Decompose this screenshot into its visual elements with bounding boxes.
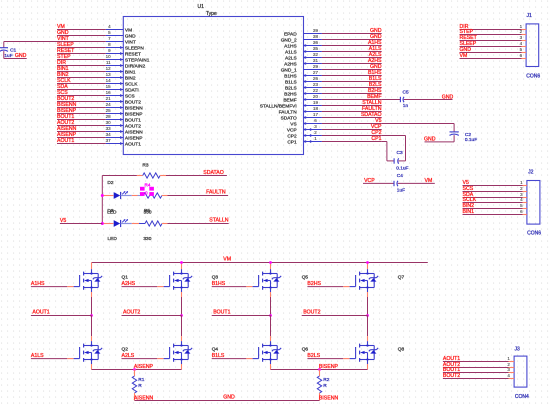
svg-text:BISENP: BISENP [125, 111, 143, 117]
svg-text:20: 20 [313, 94, 319, 99]
svg-text:B1HS: B1HS [212, 281, 226, 287]
svg-text:BOUT1: BOUT1 [213, 310, 230, 316]
svg-text:0.1uF: 0.1uF [465, 137, 477, 143]
svg-text:Q3: Q3 [212, 274, 219, 280]
svg-text:VM: VM [223, 257, 231, 263]
svg-text:BISENP: BISENP [319, 364, 339, 370]
svg-text:SDATI: SDATI [125, 87, 139, 93]
svg-text:14: 14 [106, 78, 112, 83]
svg-text:A1LS: A1LS [31, 353, 44, 359]
svg-text:B2HS: B2HS [284, 91, 297, 97]
svg-text:AOUT1: AOUT1 [32, 310, 49, 316]
svg-text:A2HS: A2HS [122, 281, 136, 287]
svg-text:A1HS: A1HS [31, 281, 45, 287]
svg-text:VCP: VCP [287, 127, 297, 133]
svg-text:10: 10 [106, 54, 112, 59]
svg-text:34: 34 [106, 132, 112, 137]
svg-text:1n: 1n [403, 103, 409, 109]
svg-text:BOUT2: BOUT2 [125, 99, 141, 105]
svg-text:V5: V5 [60, 218, 66, 224]
svg-text:Q5: Q5 [302, 274, 309, 280]
svg-text:CP2: CP2 [287, 133, 297, 139]
svg-text:B1LS: B1LS [212, 353, 225, 359]
svg-text:BOUT1: BOUT1 [125, 117, 141, 123]
svg-text:SDATO: SDATO [281, 115, 297, 121]
svg-text:31: 31 [313, 58, 319, 63]
svg-text:CON6: CON6 [526, 74, 540, 80]
svg-text:R3: R3 [142, 163, 148, 169]
svg-text:0.1uF: 0.1uF [396, 165, 408, 171]
svg-text:J3: J3 [515, 347, 521, 353]
svg-text:GND: GND [424, 137, 436, 143]
svg-text:23: 23 [313, 82, 319, 87]
svg-text:A2HS: A2HS [284, 61, 297, 67]
svg-text:R: R [138, 383, 142, 389]
svg-text:SLEEPN: SLEEPN [125, 45, 144, 51]
svg-text:21: 21 [106, 96, 112, 101]
svg-text:1uF: 1uF [397, 188, 405, 194]
svg-text:Q1: Q1 [122, 274, 129, 280]
svg-text:28: 28 [106, 114, 112, 119]
svg-text:AOUT1: AOUT1 [125, 141, 141, 147]
svg-text:BISENN: BISENN [319, 395, 339, 401]
svg-text:GND_1: GND_1 [281, 67, 297, 73]
svg-text:EPAD: EPAD [284, 31, 297, 37]
svg-text:SCS: SCS [125, 93, 135, 99]
svg-text:22: 22 [313, 88, 319, 93]
svg-text:R2: R2 [323, 377, 329, 383]
svg-text:38: 38 [313, 34, 319, 39]
svg-text:BOUT2: BOUT2 [443, 373, 460, 379]
svg-text:CON4: CON4 [515, 394, 529, 400]
svg-text:26: 26 [313, 76, 319, 81]
svg-text:32: 32 [313, 52, 319, 57]
svg-text:BIN1: BIN1 [463, 209, 475, 215]
svg-text:VCP: VCP [364, 178, 375, 184]
svg-text:Type: Type [206, 11, 217, 17]
svg-text:B2LS: B2LS [285, 85, 297, 91]
svg-text:19: 19 [313, 100, 319, 105]
svg-text:STALLN: STALLN [209, 218, 228, 224]
svg-text:C3: C3 [397, 150, 403, 156]
svg-text:R: R [323, 383, 327, 389]
svg-text:27: 27 [313, 70, 319, 75]
svg-text:35: 35 [313, 46, 319, 51]
svg-text:SDATAO: SDATAO [203, 170, 224, 176]
svg-text:AOUT1: AOUT1 [57, 138, 74, 144]
svg-text:25: 25 [106, 108, 112, 113]
svg-text:B1HS: B1HS [284, 73, 297, 79]
svg-text:AOUT2: AOUT2 [123, 310, 140, 316]
svg-text:AISENP: AISENP [134, 364, 154, 370]
svg-text:FAULTN: FAULTN [206, 190, 226, 196]
svg-text:30: 30 [106, 120, 112, 125]
svg-text:C4: C4 [397, 173, 403, 179]
svg-text:CP1: CP1 [287, 139, 297, 145]
svg-text:J2: J2 [528, 170, 534, 176]
svg-text:VM: VM [460, 53, 468, 59]
svg-text:BISENN: BISENN [125, 105, 143, 111]
svg-text:BIN2: BIN2 [125, 75, 136, 81]
svg-text:GND: GND [223, 394, 235, 400]
svg-text:AOUT2: AOUT2 [125, 123, 141, 129]
svg-text:SCLK: SCLK [125, 81, 138, 87]
svg-text:VM: VM [425, 178, 433, 184]
svg-text:39: 39 [313, 28, 319, 33]
svg-text:Q2: Q2 [122, 346, 129, 352]
svg-text:A2LS: A2LS [122, 353, 135, 359]
svg-text:330: 330 [143, 236, 151, 242]
svg-text:29: 29 [313, 64, 319, 69]
svg-text:BEMF: BEMF [283, 97, 296, 103]
svg-text:CP1: CP1 [371, 136, 381, 142]
svg-text:Q8: Q8 [398, 346, 405, 352]
svg-text:R1: R1 [138, 377, 144, 383]
svg-text:FAULTN: FAULTN [279, 109, 298, 115]
svg-text:VINT: VINT [125, 39, 136, 45]
svg-text:330: 330 [144, 209, 152, 215]
svg-text:18: 18 [313, 106, 319, 111]
svg-text:1uF: 1uF [4, 53, 12, 59]
svg-text:A2LS: A2LS [285, 55, 297, 61]
svg-text:B2LS: B2LS [307, 353, 320, 359]
svg-text:LED: LED [107, 209, 117, 215]
svg-text:DIR/AIN2: DIR/AIN2 [125, 63, 146, 69]
svg-text:Q7: Q7 [398, 274, 405, 280]
svg-text:U1: U1 [198, 4, 205, 10]
svg-text:VS: VS [290, 121, 296, 127]
svg-text:STALLN/BEMFVI: STALLN/BEMFVI [260, 103, 297, 109]
svg-text:17: 17 [313, 112, 319, 117]
svg-text:A1LS: A1LS [285, 49, 297, 55]
svg-text:AISENP: AISENP [125, 135, 143, 141]
svg-text:RESET: RESET [125, 51, 141, 57]
svg-text:Q6: Q6 [302, 346, 309, 352]
svg-text:J1: J1 [527, 13, 533, 19]
svg-text:36: 36 [313, 40, 319, 45]
svg-text:12: 12 [106, 66, 112, 71]
svg-text:15: 15 [106, 84, 112, 89]
svg-text:AISENN: AISENN [125, 129, 143, 135]
svg-text:CON6: CON6 [527, 230, 541, 236]
svg-text:33: 33 [106, 126, 112, 131]
svg-text:LED: LED [108, 236, 118, 242]
svg-text:GND: GND [442, 94, 454, 100]
svg-text:13: 13 [106, 72, 112, 77]
svg-text:STEP/AIN1: STEP/AIN1 [125, 57, 150, 63]
svg-text:11: 11 [106, 60, 111, 65]
svg-text:GND: GND [125, 33, 136, 39]
svg-text:B2HS: B2HS [307, 281, 321, 287]
svg-text:D2: D2 [107, 180, 113, 186]
svg-text:GND_2: GND_2 [281, 37, 297, 43]
svg-text:BOUT2: BOUT2 [303, 310, 320, 316]
svg-text:37: 37 [106, 138, 112, 143]
svg-text:24: 24 [106, 102, 112, 107]
svg-text:C5: C5 [403, 89, 409, 95]
svg-text:16: 16 [106, 90, 112, 95]
svg-text:Q4: Q4 [212, 346, 219, 352]
svg-text:VM: VM [125, 27, 132, 33]
svg-text:A1HS: A1HS [284, 43, 297, 49]
svg-text:B1LS: B1LS [285, 79, 297, 85]
svg-text:R4: R4 [145, 183, 151, 188]
svg-text:GND: GND [15, 53, 27, 59]
svg-text:BIN1: BIN1 [125, 69, 136, 75]
